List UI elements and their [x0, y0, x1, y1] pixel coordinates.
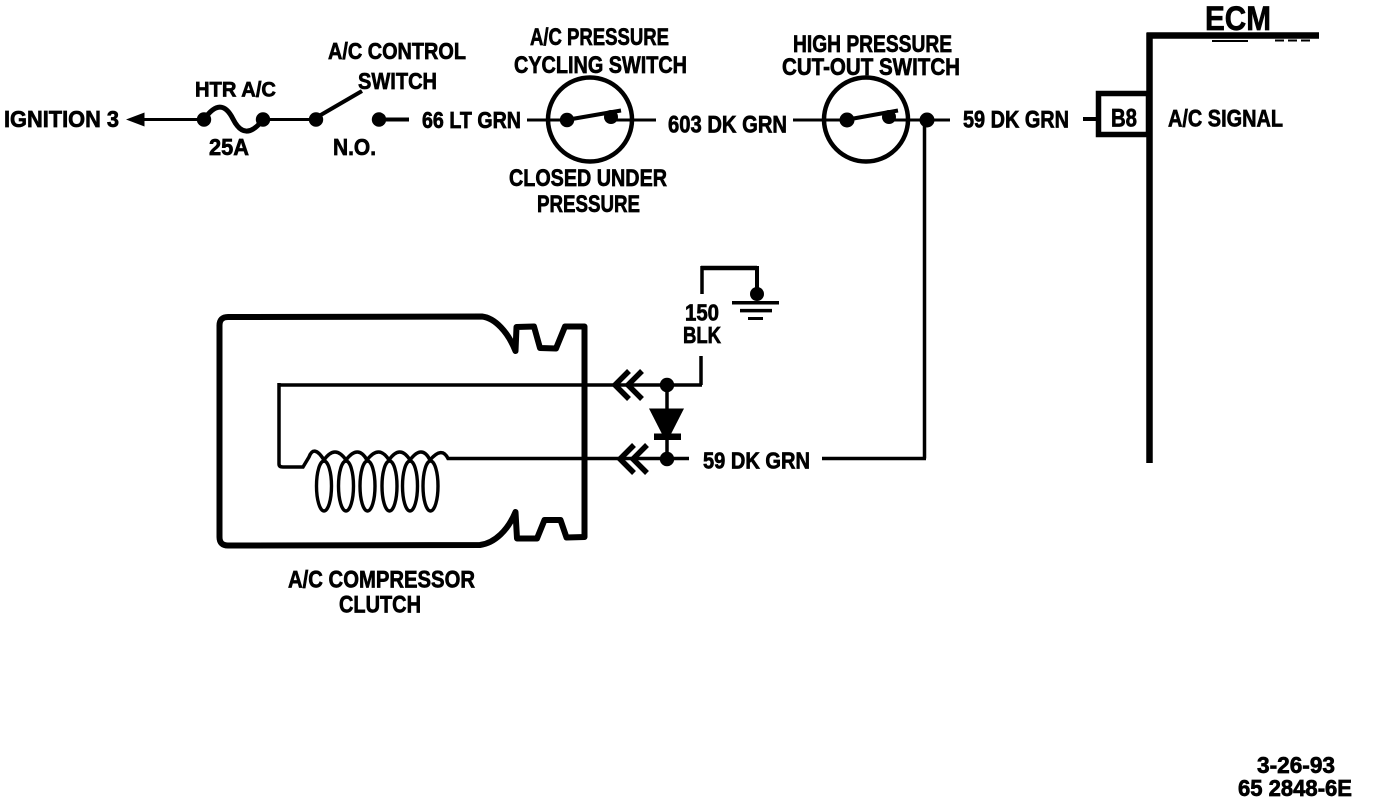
- svg-text:ECM: ECM: [1205, 0, 1271, 38]
- wire: [527, 119, 547, 122]
- svg-text:59 DK GRN: 59 DK GRN: [963, 107, 1069, 134]
- coil (clutch winding): [279, 383, 584, 511]
- node junction at cut-out switch output: [920, 113, 935, 128]
- wire (ground drop to coil wire): [699, 356, 703, 385]
- wire: [793, 119, 824, 122]
- svg-text:603 DK GRN: 603 DK GRN: [668, 112, 787, 139]
- fuse HTR A/C 25A: [195, 79, 276, 161]
- svg-text:BLK: BLK: [683, 322, 721, 348]
- wire label 150 BLK: [683, 300, 721, 349]
- svg-text:CUT-OUT SWITCH: CUT-OUT SWITCH: [782, 54, 960, 81]
- svg-text:B8: B8: [1111, 105, 1137, 133]
- svg-text:A/C CONTROL: A/C CONTROL: [328, 38, 466, 64]
- A/C compressor clutch outline: [220, 317, 585, 619]
- svg-text:66 LT GRN: 66 LT GRN: [422, 107, 521, 133]
- diode: [649, 385, 684, 459]
- node junction diode top: [660, 378, 674, 392]
- svg-text:59 DK GRN: 59 DK GRN: [703, 448, 810, 474]
- node junction diode bottom: [660, 452, 674, 466]
- svg-text:N.O.: N.O.: [333, 134, 376, 160]
- svg-text:SWITCH: SWITCH: [358, 68, 437, 94]
- svg-text:25A: 25A: [209, 134, 249, 160]
- ECM: [1147, 0, 1320, 463]
- wire: [126, 113, 199, 127]
- pin B8: [1099, 94, 1149, 135]
- svg-text:CLOSED UNDER: CLOSED UNDER: [509, 165, 667, 192]
- switch A/C CONTROL SWITCH (N.O.): [309, 38, 466, 160]
- svg-text:CYCLING SWITCH: CYCLING SWITCH: [514, 52, 687, 79]
- wire (upper clutch wire): [279, 383, 702, 387]
- wire (lower clutch wire left of label): [584, 457, 689, 461]
- wire: [1083, 117, 1098, 121]
- svg-text:A/C COMPRESSOR: A/C COMPRESSOR: [288, 567, 475, 594]
- wire: [270, 118, 310, 121]
- connector chevrons lower: [620, 445, 647, 473]
- svg-text:HTR A/C: HTR A/C: [195, 79, 276, 102]
- note date code: [1238, 752, 1352, 801]
- svg-text:IGNITION 3: IGNITION 3: [4, 106, 119, 132]
- wire: [386, 118, 409, 122]
- svg-text:A/C PRESSURE: A/C PRESSURE: [530, 24, 669, 51]
- svg-text:CLUTCH: CLUTCH: [339, 592, 421, 619]
- svg-text:65 2848-6E: 65 2848-6E: [1238, 775, 1352, 801]
- svg-text:A/C SIGNAL: A/C SIGNAL: [1168, 106, 1283, 133]
- switch HIGH PRESSURE CUT-OUT SWITCH: [782, 31, 960, 162]
- switch A/C PRESSURE CYCLING SWITCH: [509, 24, 687, 218]
- svg-text:PRESSURE: PRESSURE: [537, 191, 640, 218]
- wire (lower run to cut-out junction): [822, 122, 926, 459]
- connector chevrons upper: [615, 371, 642, 399]
- ground: [701, 266, 779, 319]
